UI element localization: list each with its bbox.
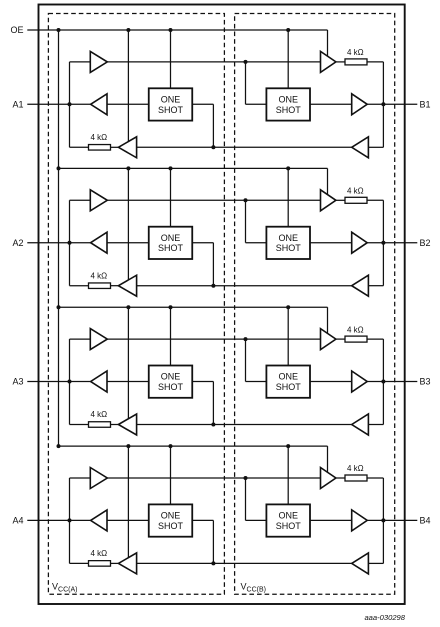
wire B1 vertical link (368, 62, 383, 147)
buffer A4 output driver (B-to-A) (91, 510, 107, 531)
wire B3 pin line (367, 381, 417, 383)
wire A3 mid buffer input (107, 381, 149, 383)
buffer A4 A-to-B driver (90, 468, 107, 489)
junction B2 one-shot tap (244, 198, 248, 202)
wire A3 vertical link (69, 339, 71, 424)
wire OE drop to one-shot B2 (287, 168, 289, 226)
buffer B1 output driver (A-to-B) (352, 94, 368, 115)
junction OE row 2 at distribution (57, 166, 61, 170)
wire one-shot B4 output (310, 519, 352, 521)
junction OE row 2 at enable drop (126, 166, 130, 170)
buffer B2 top (A-to-B through resistor) (321, 190, 336, 211)
buffer B3 bottom (B-to-A receiver) (352, 414, 369, 435)
svg-text:SHOT: SHOT (158, 243, 184, 253)
buffer B2 bottom (B-to-A receiver) (352, 275, 369, 296)
junction one-shot A3 output on cross line (211, 423, 215, 427)
wire enable drop to A4 bottom buffer (127, 446, 129, 557)
svg-text:OE: OE (10, 25, 23, 35)
junction A1 line / link (68, 102, 72, 106)
wire A2 vertical link (69, 200, 71, 285)
wire B1 pin line (367, 103, 417, 105)
wire OE branch row 3 (59, 307, 328, 333)
wire OE drop to one-shot A3 (170, 307, 172, 365)
wire one-shot B2 input drop (246, 200, 267, 242)
svg-text:ONE: ONE (278, 95, 298, 105)
buffer A1 bottom (B-to-A through resistor) (118, 137, 136, 158)
svg-text:SHOT: SHOT (158, 105, 184, 115)
buffer A1 A-to-B driver (90, 51, 107, 72)
buffer A1 output driver (B-to-A) (91, 94, 107, 115)
wire A1 resistor leads (70, 146, 119, 148)
junction B1 line / link (381, 102, 385, 106)
wire A2 top buffer input (70, 199, 91, 201)
junction OE row 4 at distribution (57, 444, 61, 448)
resistor 4k A1 (89, 145, 111, 151)
junction OE row 3 at one-shot B drop (286, 305, 290, 309)
wire B2 vertical link (368, 200, 383, 285)
junction B4 line / link (381, 518, 385, 522)
wire one-shot A3 output (192, 382, 213, 425)
buffer A3 output driver (B-to-A) (91, 371, 107, 392)
buffer B3 output driver (A-to-B) (352, 371, 368, 392)
junction OE row 1 at one-shot B drop (286, 28, 290, 32)
one-shot A3 (149, 366, 193, 398)
svg-text:B4: B4 (420, 516, 431, 526)
one-shot A2 (149, 227, 193, 259)
buffer B3 top (A-to-B through resistor) (321, 329, 336, 350)
wire one-shot A1 output (192, 104, 213, 147)
wire B1-to-A1 cross line (137, 146, 352, 148)
wire A4 vertical link (69, 478, 71, 563)
wire A4 top buffer output to B side (107, 477, 320, 479)
resistor 4k B4 (345, 475, 367, 481)
svg-text:4 kΩ: 4 kΩ (347, 48, 364, 57)
wire A4 mid buffer input (107, 519, 149, 521)
wire enable drop to A1 bottom buffer (127, 30, 129, 142)
junction OE row 1 at enable drop (126, 28, 130, 32)
junction one-shot A2 output on cross line (211, 284, 215, 288)
VCC(A) supply domain dashed box (48, 14, 224, 595)
chip outline border (39, 5, 405, 605)
wire A3 top buffer input (70, 338, 91, 340)
wire A4 top buffer input (70, 477, 91, 479)
buffer B1 top (A-to-B through resistor) (321, 51, 336, 72)
wire B1 resistor leads (336, 61, 384, 63)
buffer B4 bottom (B-to-A receiver) (352, 553, 369, 574)
wire A3 resistor leads (70, 424, 119, 426)
buffer A3 bottom (B-to-A through resistor) (118, 414, 136, 435)
svg-text:A2: A2 (12, 238, 23, 248)
svg-text:ONE: ONE (161, 372, 181, 382)
wire OE branch row 4 (59, 446, 328, 472)
svg-text:SHOT: SHOT (276, 382, 302, 392)
buffer A2 output driver (B-to-A) (91, 232, 107, 253)
junction OE row 4 at enable drop (126, 444, 130, 448)
wire A3 top buffer output to B side (107, 338, 320, 340)
buffer B4 top (A-to-B through resistor) (321, 468, 336, 489)
wire OE branch row 2 (59, 168, 328, 194)
junction B1 one-shot tap (244, 60, 248, 64)
wire OE branch row 1 (27, 30, 327, 56)
wire one-shot B1 output (310, 103, 352, 105)
wire OE drop to one-shot A2 (170, 168, 172, 226)
wire A1 top buffer input (70, 61, 91, 63)
wire one-shot B3 input drop (246, 339, 267, 381)
wire one-shot B1 input drop (246, 62, 267, 104)
svg-text:SHOT: SHOT (158, 521, 184, 531)
svg-text:B1: B1 (420, 100, 431, 110)
wire A1 vertical link (69, 62, 71, 147)
resistor 4k A4 (89, 561, 111, 567)
wire one-shot A2 output (192, 243, 213, 286)
svg-text:ONE: ONE (161, 233, 181, 243)
svg-text:4 kΩ: 4 kΩ (90, 133, 107, 142)
wire one-shot B4 input drop (246, 478, 267, 520)
wire B3 resistor leads (336, 338, 384, 340)
wire OE drop to one-shot B3 (287, 307, 289, 365)
wire B2-to-A2 cross line (137, 285, 352, 287)
junction one-shot A1 output on cross line (211, 145, 215, 149)
wire A4 resistor leads (70, 562, 119, 564)
wire OE drop to one-shot B4 (287, 446, 289, 504)
buffer B2 output driver (A-to-B) (352, 232, 368, 253)
one-shot A4 (149, 504, 193, 536)
wire A2 resistor leads (70, 285, 119, 287)
svg-text:ONE: ONE (278, 233, 298, 243)
wire B4 pin line (367, 519, 417, 521)
junction B4 one-shot tap (244, 476, 248, 480)
one-shot B4 (266, 504, 310, 536)
one-shot B3 (266, 366, 310, 398)
buffer A2 A-to-B driver (90, 190, 107, 211)
junction OE row 3 at distribution (57, 305, 61, 309)
buffer A4 bottom (B-to-A through resistor) (118, 553, 136, 574)
wire one-shot B3 output (310, 381, 352, 383)
wire B3-to-A3 cross line (137, 424, 352, 426)
svg-text:aaa-030298: aaa-030298 (364, 613, 405, 622)
svg-text:ONE: ONE (161, 511, 181, 521)
VCC(B) supply domain dashed box (235, 14, 395, 595)
wire OE drop to one-shot B1 (287, 30, 289, 88)
wire OE drop to one-shot A1 (170, 30, 172, 88)
junction OE row 1 at distribution (57, 28, 61, 32)
resistor 4k B1 (345, 59, 367, 65)
wire A1 top buffer output to B side (107, 61, 320, 63)
junction OE row 4 at one-shot B drop (286, 444, 290, 448)
svg-text:ONE: ONE (278, 372, 298, 382)
svg-text:SHOT: SHOT (158, 382, 184, 392)
junction B2 line / link (381, 241, 385, 245)
wire B4 resistor leads (336, 477, 384, 479)
junction OE row 2 at one-shot A drop (169, 166, 173, 170)
buffer B1 bottom (B-to-A receiver) (352, 137, 369, 158)
svg-text:ONE: ONE (278, 511, 298, 521)
wire A3 pin line (27, 381, 90, 383)
resistor 4k B2 (345, 197, 367, 203)
wire enable drop to A3 bottom buffer (127, 307, 129, 419)
junction B3 line / link (381, 380, 385, 384)
wire A2 pin line (27, 242, 90, 244)
svg-text:4 kΩ: 4 kΩ (347, 187, 364, 196)
svg-text:4 kΩ: 4 kΩ (90, 410, 107, 419)
junction A3 line / link (68, 380, 72, 384)
svg-text:4 kΩ: 4 kΩ (347, 325, 364, 334)
wire OE drop to one-shot A4 (170, 446, 172, 504)
wire A2 top buffer output to B side (107, 199, 320, 201)
svg-text:A4: A4 (12, 516, 23, 526)
svg-text:A1: A1 (12, 100, 23, 110)
wire one-shot A4 output (192, 520, 213, 563)
wire A1 pin line (27, 103, 90, 105)
one-shot B1 (266, 88, 310, 120)
resistor 4k A3 (89, 422, 111, 428)
junction A4 line / link (68, 518, 72, 522)
junction OE row 3 at one-shot A drop (169, 305, 173, 309)
wire enable drop to A2 bottom buffer (127, 168, 129, 280)
wire A4 pin line (27, 519, 90, 521)
junction OE row 3 at enable drop (126, 305, 130, 309)
junction OE row 1 at one-shot A drop (169, 28, 173, 32)
svg-text:SHOT: SHOT (276, 243, 302, 253)
svg-text:B2: B2 (420, 238, 431, 248)
svg-text:ONE: ONE (161, 95, 181, 105)
junction OE row 4 at one-shot A drop (169, 444, 173, 448)
wire B4-to-A4 cross line (137, 562, 352, 564)
junction OE row 2 at one-shot B drop (286, 166, 290, 170)
svg-text:SHOT: SHOT (276, 521, 302, 531)
svg-text:SHOT: SHOT (276, 105, 302, 115)
wire B2 pin line (367, 242, 417, 244)
resistor 4k B3 (345, 336, 367, 342)
svg-text:4 kΩ: 4 kΩ (90, 271, 107, 280)
wire B2 resistor leads (336, 199, 384, 201)
svg-text:4 kΩ: 4 kΩ (90, 549, 107, 558)
svg-text:A3: A3 (12, 377, 23, 387)
buffer B4 output driver (A-to-B) (352, 510, 368, 531)
junction one-shot A4 output on cross line (211, 561, 215, 565)
wire OE vertical distribution (58, 30, 60, 446)
resistor 4k A2 (89, 283, 111, 289)
buffer A3 A-to-B driver (90, 329, 107, 350)
wire B3 vertical link (368, 339, 383, 424)
one-shot B2 (266, 227, 310, 259)
wire A2 mid buffer input (107, 242, 149, 244)
wire B4 vertical link (368, 478, 383, 563)
junction B3 one-shot tap (244, 337, 248, 341)
svg-text:4 kΩ: 4 kΩ (347, 464, 364, 473)
wire one-shot B2 output (310, 242, 352, 244)
one-shot A1 (149, 88, 193, 120)
junction A2 line / link (68, 241, 72, 245)
buffer A2 bottom (B-to-A through resistor) (118, 275, 136, 296)
svg-text:B3: B3 (420, 377, 431, 387)
wire A1 mid buffer input (107, 103, 149, 105)
